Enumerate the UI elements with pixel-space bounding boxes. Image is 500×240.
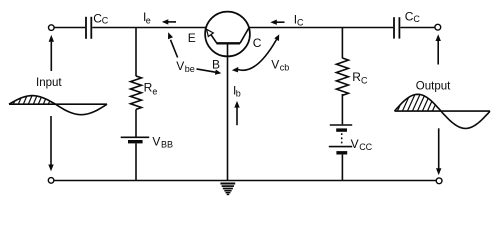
- svg-text:C: C: [361, 75, 368, 85]
- svg-text:be: be: [185, 64, 195, 74]
- battery VCC cell 2: [329, 147, 352, 153]
- annotation curved double arrow Vcb: [232, 34, 279, 72]
- svg-text:C: C: [102, 16, 109, 26]
- label CC (output): [405, 10, 421, 24]
- label Re: [144, 81, 158, 97]
- wire: collector to output capacitor: [249, 27, 393, 29]
- resistor RC: [336, 58, 348, 95]
- label VBB: [152, 135, 173, 150]
- svg-text:C: C: [253, 36, 262, 50]
- output arrow down to bottom terminal: [436, 128, 441, 175]
- svg-text:C: C: [297, 18, 304, 28]
- svg-text:cb: cb: [280, 62, 290, 72]
- input sine wave curve: [9, 96, 107, 115]
- current arrow IC: [270, 20, 284, 25]
- transistor Q1 collector line: [240, 28, 249, 43]
- wire: junction down to resistor Re: [135, 28, 137, 77]
- output sine wave baseline: [395, 110, 491, 112]
- resistor Re: [131, 76, 142, 109]
- input arrow down to bottom terminal: [48, 116, 53, 171]
- terminal output top: [435, 24, 441, 30]
- transistor Q1 emitter line: [210, 34, 217, 44]
- output arrow up to terminal: [436, 34, 441, 64]
- wire: Re to battery VBB: [135, 109, 137, 136]
- svg-text:V: V: [176, 59, 184, 73]
- output sine wave curve: [395, 94, 491, 128]
- wire: junction down to resistor RC: [341, 28, 343, 59]
- input sine wave baseline: [9, 103, 107, 105]
- label Vcb: [271, 57, 289, 72]
- wire top-left: input terminal to capacitor CC: [54, 27, 85, 29]
- svg-text:CC: CC: [359, 142, 372, 152]
- svg-text:E: E: [188, 31, 196, 45]
- input arrow up to terminal: [49, 35, 54, 71]
- label VCC: [351, 137, 373, 152]
- svg-text:Output: Output: [416, 81, 451, 93]
- wire: bottom ground rail: [54, 180, 436, 182]
- wire: capacitor CC to emitter node: [92, 27, 206, 29]
- svg-text:R: R: [144, 81, 153, 95]
- svg-text:V: V: [271, 57, 279, 71]
- svg-text:V: V: [351, 137, 359, 151]
- svg-text:BB: BB: [161, 140, 173, 150]
- battery VCC cell 1: [330, 125, 352, 130]
- label CC (input): [93, 11, 109, 25]
- transistor Q1 body circle: [205, 12, 250, 57]
- label Ib: [233, 83, 241, 98]
- wire: VCC to ground rail: [341, 155, 343, 181]
- capacitor CC (output coupling): [394, 17, 399, 38]
- transistor Q1 base lead wire to ground rail: [227, 43, 229, 180]
- svg-text:e: e: [146, 15, 151, 25]
- svg-text:b: b: [236, 88, 241, 98]
- svg-text:R: R: [352, 70, 361, 84]
- output sine hump hatching: [392, 90, 442, 112]
- label Ie: [143, 10, 151, 25]
- capacitor CC (input coupling): [86, 17, 91, 39]
- label IC: [294, 13, 304, 28]
- transistor Q1 base bar: [217, 42, 241, 44]
- annotation arrow Vbe to base: [197, 69, 222, 75]
- svg-text:B: B: [212, 58, 220, 72]
- label RC: [352, 70, 368, 85]
- battery VBB: [121, 137, 150, 141]
- transistor Q1 emitter open arrowhead: [207, 29, 214, 36]
- terminal input bottom: [48, 178, 54, 184]
- svg-text:Input: Input: [36, 77, 62, 89]
- terminal input top: [49, 25, 55, 31]
- current arrow Ie: [162, 19, 176, 24]
- svg-text:V: V: [152, 135, 160, 149]
- wire: capacitor CC to output terminal: [400, 27, 435, 29]
- annotation arrow Vbe to emitter wire: [168, 32, 178, 57]
- battery VCC dotted link: [341, 133, 343, 145]
- current arrow Ib: [234, 101, 239, 125]
- input sine hump hatching: [8, 91, 54, 105]
- label Vbe: [176, 59, 195, 74]
- ground symbol: [220, 184, 235, 195]
- svg-text:e: e: [152, 87, 157, 97]
- terminal output bottom: [436, 178, 442, 184]
- wire: RC to battery VCC: [341, 94, 343, 124]
- wire: VBB to ground rail: [135, 143, 137, 180]
- svg-text:C: C: [413, 14, 420, 24]
